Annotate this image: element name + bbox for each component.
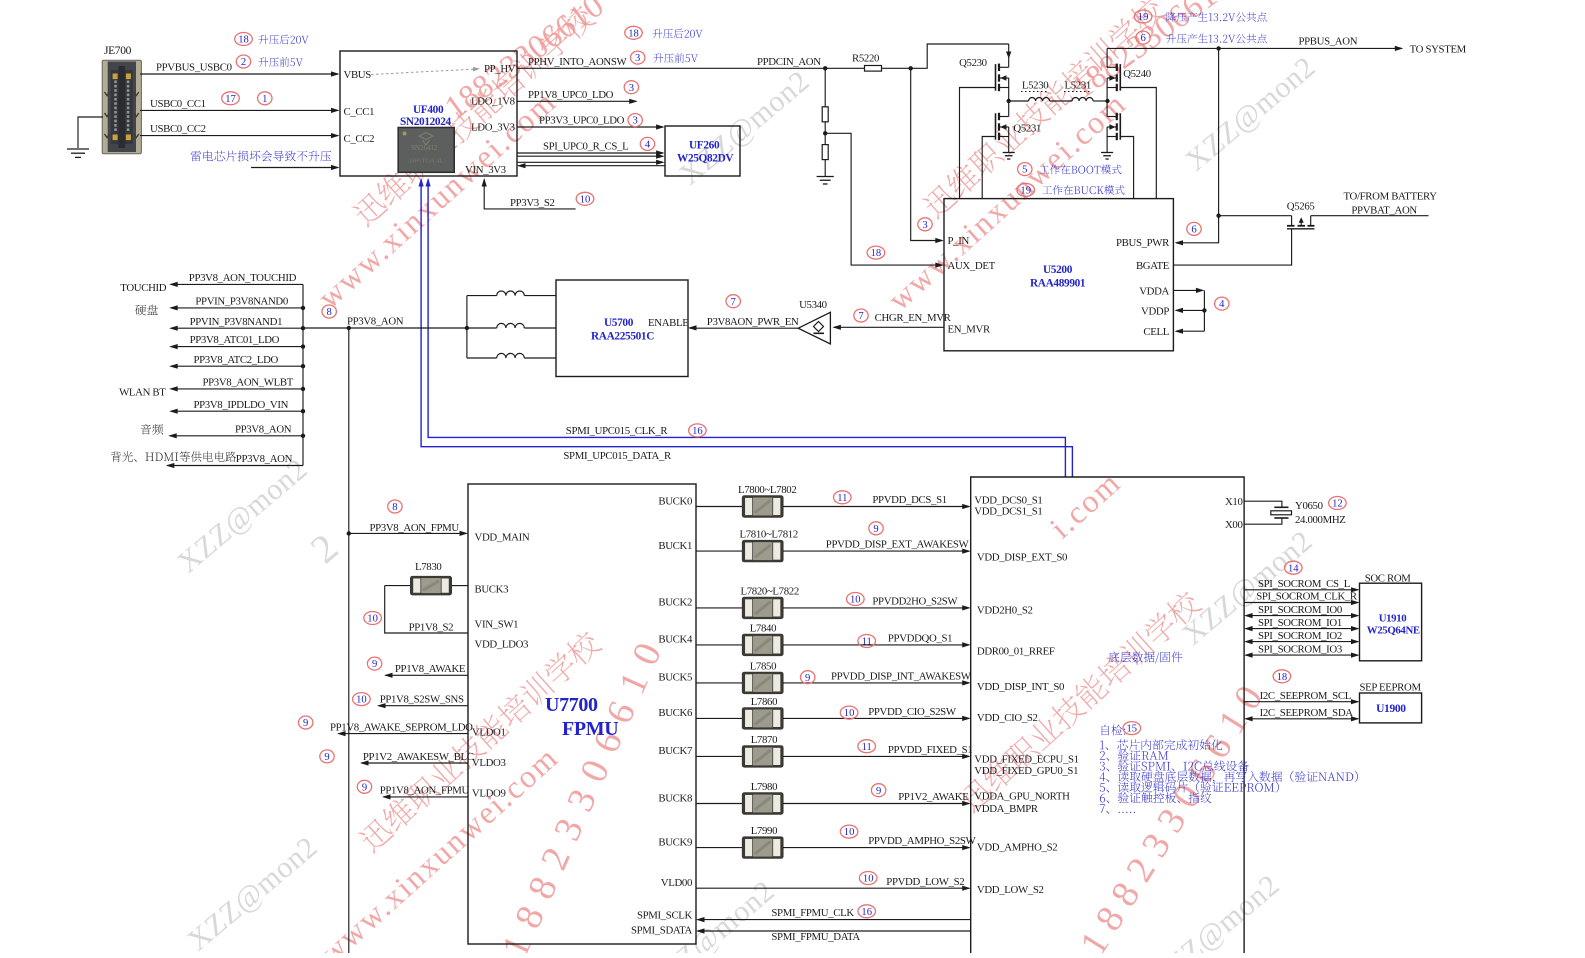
svg-text:SPMI_SDATA: SPMI_SDATA <box>631 924 693 936</box>
svg-text:9: 9 <box>873 524 878 535</box>
svg-text:I2C_SEEPROM_SCL: I2C_SEEPROM_SCL <box>1260 690 1351 702</box>
svg-text:BGATE: BGATE <box>1136 260 1170 272</box>
svg-text:SEP EEPROM: SEP EEPROM <box>1360 681 1422 693</box>
svg-text:PP_HV: PP_HV <box>484 63 516 75</box>
svg-text:W25Q64NE: W25Q64NE <box>1367 625 1420 637</box>
svg-text:LDO_3V3: LDO_3V3 <box>471 122 515 134</box>
svg-text:SPMI_FPMU_CLK: SPMI_FPMU_CLK <box>771 907 854 919</box>
svg-text:8: 8 <box>327 307 332 318</box>
svg-text:PPVDD2HO_S2SW: PPVDD2HO_S2SW <box>872 596 958 608</box>
transistor Q5265 (battery FET) <box>1219 201 1429 229</box>
wire P3V8AON_PWR_EN <box>688 316 799 331</box>
callout 11 (PPVDD_FIXED_S1) <box>858 740 876 753</box>
svg-text:VDD_FIXED_ECPU_S1: VDD_FIXED_ECPU_S1 <box>974 754 1078 766</box>
callout 4 (VDD loop) <box>1215 297 1229 310</box>
inductor L5230 <box>1009 79 1050 101</box>
svg-text:PP1V8_S2: PP1V8_S2 <box>409 622 454 634</box>
svg-text:3: 3 <box>633 116 638 127</box>
callout 15 + self-test annotation list <box>1100 722 1358 814</box>
wire PP3V8_ATC2_LDO branch ATC2 <box>169 354 305 369</box>
svg-text:VDD_LOW_S2: VDD_LOW_S2 <box>977 884 1044 896</box>
svg-text:PPVDDQO_S1: PPVDDQO_S1 <box>888 633 952 645</box>
svg-text:PP3V8_IPDLDO_VIN: PP3V8_IPDLDO_VIN <box>194 399 289 411</box>
wire PPHV_INTO_AONSW / PPDCIN_AON <box>517 56 864 71</box>
svg-text:PP3V8_AON: PP3V8_AON <box>235 423 292 435</box>
IC UF260 : SPI ROM W25Q82DV <box>665 126 740 176</box>
svg-text:SPMI_FPMU_DATA: SPMI_FPMU_DATA <box>771 931 860 943</box>
svg-text:TOUCHID: TOUCHID <box>120 282 166 294</box>
ground (JE700 shell) <box>67 117 103 157</box>
ferrite bead L7820~L7822 + wire PPVDD2HO_S2SW <box>696 585 971 619</box>
svg-text:VDDA_GPU_NORTH: VDDA_GPU_NORTH <box>974 791 1070 803</box>
svg-text:7: 7 <box>858 311 863 322</box>
callout 9 (PP1V2_AWAKE) <box>871 784 885 797</box>
svg-text:Y0650: Y0650 <box>1295 500 1323 512</box>
callout 10 (PPVDD2HO_S2SW) <box>847 593 865 606</box>
svg-text:W25Q82DV: W25Q82DV <box>677 153 734 165</box>
svg-text:VDD_LDO3: VDD_LDO3 <box>475 639 529 651</box>
wire PP3V8_ATC01_LDO branch ATC01 <box>169 334 305 349</box>
inductor (U5700 row2) <box>467 323 556 328</box>
callout 10 (PP3V3_S2) <box>576 192 594 205</box>
svg-text:7: 7 <box>731 297 736 308</box>
svg-text:UF400: UF400 <box>413 104 444 116</box>
wire SPI_SOCROM_IO3 <box>1244 643 1359 657</box>
callout 9 (PPVDD_DISP_INT_AWAKESW) <box>801 671 815 684</box>
svg-text:U1910: U1910 <box>1379 613 1407 625</box>
wire VDD_MAIN feed <box>347 531 468 536</box>
IC U7700 : FPMU <box>468 484 696 944</box>
wire PPVIN_P3V8NAND0 branch NAND0 <box>135 296 305 316</box>
svg-text:U5200: U5200 <box>1043 264 1073 276</box>
svg-text:Q5265: Q5265 <box>1287 201 1315 213</box>
svg-text:VDD_DISP_INT_S0: VDD_DISP_INT_S0 <box>977 681 1064 693</box>
wire PP3V3_UPC0_LDO <box>517 115 665 130</box>
svg-text:R5220: R5220 <box>852 53 879 65</box>
ground (right leg) <box>1101 152 1113 154</box>
wire SPMI_UPC015_CLK_R (blue bus) <box>426 178 1066 477</box>
IC U1900 : SEP EEPROM <box>1360 681 1422 723</box>
wire PPVIN_P3V8NAND1 branch NAND1 <box>169 316 305 331</box>
svg-text:SPMI_UPC015_DATA_R: SPMI_UPC015_DATA_R <box>563 450 672 462</box>
svg-text:PP3V8_ATC01_LDO: PP3V8_ATC01_LDO <box>190 334 280 346</box>
transistor Q5230 <box>959 44 1011 101</box>
transistor Q5231 <box>996 101 1042 152</box>
svg-text:PPVDD_DISP_INT_AWAKESW: PPVDD_DISP_INT_AWAKESW <box>831 671 972 683</box>
wire SPI bus UF400-UF260 (SPI_UPC0_R_CS_L) <box>517 141 665 169</box>
svg-text:AUX_DET: AUX_DET <box>948 260 996 272</box>
callout 10 (PPVDD_CIO_S2SW) <box>840 706 858 719</box>
svg-text:PP3V8_AON_TOUCHID: PP3V8_AON_TOUCHID <box>189 272 297 284</box>
ferrite bead L7840 + wire PPVDDQO_S1 <box>696 622 971 656</box>
svg-text:4: 4 <box>1219 299 1225 310</box>
wire PP3V3_S2 into VIN_3V3 <box>482 178 576 209</box>
svg-text:6: 6 <box>1140 33 1145 44</box>
wire PP3V8_AON trunk <box>303 326 467 330</box>
svg-text:4: 4 <box>645 140 651 151</box>
svg-text:SPI_SOCROM_IO1: SPI_SOCROM_IO1 <box>1258 617 1342 629</box>
svg-text:PP1V8_UPC0_LDO: PP1V8_UPC0_LDO <box>528 89 614 101</box>
annotation backlight/HDMI loads <box>111 451 236 461</box>
svg-text:SPI_UPC0_R_CS_L: SPI_UPC0_R_CS_L <box>543 141 628 153</box>
svg-text:18: 18 <box>238 35 249 46</box>
svg-text:SPI_SOCROM_CS_L: SPI_SOCROM_CS_L <box>1258 578 1350 590</box>
svg-text:PPVDD_AMPHO_S2SW: PPVDD_AMPHO_S2SW <box>868 835 976 847</box>
wire SPI_SOCROM_IO1 <box>1244 617 1359 631</box>
svg-text:8: 8 <box>392 502 397 513</box>
svg-text:VDD_DISP_EXT_S0: VDD_DISP_EXT_S0 <box>977 552 1067 564</box>
svg-text:SN26412: SN26412 <box>411 144 438 152</box>
svg-text:VIN_SW1: VIN_SW1 <box>475 619 519 631</box>
wire PPVDD_LOW_S2 <box>696 876 971 891</box>
callout 9 (PPVDD_DISP_EXT_AWAKESW) <box>869 522 883 535</box>
svg-text:PP3V8_ATC2_LDO: PP3V8_ATC2_LDO <box>194 354 279 366</box>
ground (divider) <box>817 176 834 178</box>
svg-text:C_CC1: C_CC1 <box>344 106 375 118</box>
IC U1910 : SOC ROM W25Q64NE <box>1360 573 1422 661</box>
svg-text:39P0TGA 4L: 39P0TGA 4L <box>408 158 443 165</box>
svg-text:CHGR_EN_MVR: CHGR_EN_MVR <box>875 312 952 324</box>
wire PP1V8_S2 to VIN_SW1 <box>385 586 468 634</box>
svg-text:11: 11 <box>862 637 872 648</box>
svg-text:U5340: U5340 <box>799 299 827 311</box>
svg-text:PP3V3_UPC0_LDO: PP3V3_UPC0_LDO <box>539 115 625 127</box>
net label PP3V8_AON + callout 8 <box>322 305 404 327</box>
node switch right <box>1105 99 1109 103</box>
connector JE700 <box>102 45 141 154</box>
wire SPI_SOCROM_IO2 <box>1244 630 1359 644</box>
svg-text:1: 1 <box>262 94 267 105</box>
svg-text:VLDO1: VLDO1 <box>472 727 506 739</box>
wire PPVBUS_USBC0 <box>140 62 340 77</box>
callout 17 <box>222 92 240 105</box>
svg-text:VDD_AMPHO_S2: VDD_AMPHO_S2 <box>977 842 1057 854</box>
svg-text:SPMI_UPC015_CLK_R: SPMI_UPC015_CLK_R <box>566 425 669 437</box>
svg-text:12: 12 <box>1332 499 1343 510</box>
svg-text:BUCK7: BUCK7 <box>658 745 693 757</box>
svg-text:PPHV_INTO_AONSW: PPHV_INTO_AONSW <box>528 56 627 68</box>
svg-text:9: 9 <box>372 659 377 670</box>
svg-text:BUCK1: BUCK1 <box>658 540 692 552</box>
UF400 chip photo <box>398 128 454 173</box>
svg-text:L7850: L7850 <box>750 660 776 672</box>
svg-text:BUCK0: BUCK0 <box>658 495 692 507</box>
svg-text:PBUS_PWR: PBUS_PWR <box>1116 237 1170 249</box>
wire USBC0_CC2 <box>140 123 340 138</box>
svg-text:9: 9 <box>362 782 367 793</box>
svg-text:18: 18 <box>1277 672 1288 683</box>
svg-text:PPVDD_DCS_S1: PPVDD_DCS_S1 <box>872 494 946 506</box>
callout 9 (PP1V8_AON_FPMU) <box>357 780 371 793</box>
svg-text:SPMI_SCLK: SPMI_SCLK <box>637 909 693 921</box>
resistor divider lower <box>822 122 828 176</box>
svg-text:BUCK2: BUCK2 <box>658 597 692 609</box>
wire PP3V8 vertical bus <box>302 284 304 465</box>
svg-text:PPVDD_LOW_S2: PPVDD_LOW_S2 <box>886 876 964 888</box>
svg-text:C_CC2: C_CC2 <box>344 133 375 145</box>
svg-text:PPVBUS_USBC0: PPVBUS_USBC0 <box>156 62 232 74</box>
svg-text:Q5231: Q5231 <box>1013 123 1041 135</box>
svg-text:2: 2 <box>241 57 246 68</box>
svg-text:VIN_3V3: VIN_3V3 <box>465 164 506 176</box>
wire PP1V8_AWAKE_SEPROM_LDO <box>330 721 473 736</box>
callout 9 (PP1V8_AWAKE_SEPROM_LDO) <box>299 716 313 729</box>
ferrite bead L7990 + wire PPVDD_AMPHO_S2SW <box>696 825 977 859</box>
wire SPMI_FPMU_CLK <box>696 907 971 922</box>
svg-text:USBC0_CC1: USBC0_CC1 <box>150 98 206 110</box>
svg-text:17: 17 <box>225 94 236 105</box>
callout 3 (PP3V3) <box>628 114 642 127</box>
svg-text:BUCK6: BUCK6 <box>658 707 693 719</box>
callout 7 (CHGR_EN_MVR) <box>854 309 868 322</box>
wire PP3V8_AON_FPMU vertical <box>348 328 350 953</box>
wire PP3V8_AON branch BACKLIGHT <box>166 453 303 468</box>
wire I2C_SEEPROM_SDA <box>1244 707 1359 721</box>
svg-text:TO SYSTEM: TO SYSTEM <box>1410 44 1467 56</box>
wire coil bus <box>465 296 469 358</box>
IC UF400 : USB-C PD controller SN2012024 <box>340 51 517 176</box>
svg-text:14: 14 <box>1288 563 1299 574</box>
svg-text:CELL: CELL <box>1143 326 1169 338</box>
svg-text:10: 10 <box>844 708 855 719</box>
inductor L5231 <box>1050 79 1108 101</box>
svg-text:10: 10 <box>863 874 874 885</box>
wire CHGR_EN_MVR <box>832 312 951 330</box>
svg-text:U7700: U7700 <box>545 694 598 716</box>
svg-text:VLDO3: VLDO3 <box>472 757 506 769</box>
svg-text:PP3V3_S2: PP3V3_S2 <box>510 197 555 209</box>
inductor (U5700 row1) <box>467 291 556 296</box>
svg-text:19: 19 <box>1020 186 1031 197</box>
svg-text:JE700: JE700 <box>104 45 132 57</box>
callout 3 : pre-boost 5V annotation (top) <box>631 51 698 64</box>
svg-text:U1900: U1900 <box>1376 703 1406 715</box>
svg-text:L7840: L7840 <box>750 622 776 634</box>
svg-text:VDD_CIO_S2: VDD_CIO_S2 <box>977 712 1038 724</box>
transistor Q5240 low side <box>1107 101 1120 152</box>
svg-text:PPVIN_P3V8NAND1: PPVIN_P3V8NAND1 <box>190 316 283 328</box>
svg-text:VLD00: VLD00 <box>661 877 692 889</box>
wire PPBUS to PBUS_PWR <box>1175 48 1221 245</box>
svg-text:9: 9 <box>805 673 810 684</box>
callout 19 : step-down 13.2V note <box>1134 10 1266 23</box>
SOC power-in block <box>971 477 1244 953</box>
wire SPI_SOCROM_CLK_R <box>1244 591 1359 605</box>
IC U5200 : charger RAA489901 <box>944 199 1173 351</box>
svg-text:SPI_SOCROM_CLK_R: SPI_SOCROM_CLK_R <box>1256 591 1358 603</box>
wire SPI_SOCROM_IO0 <box>1244 604 1359 618</box>
callout 11 (PPVDDQO_S1) <box>858 635 876 648</box>
callout 5 : works in BOOT mode <box>1018 163 1122 176</box>
wire PP1V8_AWAKE <box>384 663 468 678</box>
svg-text:9: 9 <box>324 752 329 763</box>
svg-text:PPVBAT_AON: PPVBAT_AON <box>1351 205 1417 217</box>
wire Q5240 low gate <box>1120 137 1133 199</box>
svg-text:9: 9 <box>303 718 308 729</box>
svg-text:FPMU: FPMU <box>562 718 618 740</box>
wire PP1V2_AWAKESW_BLC <box>360 751 474 766</box>
inductor (U5700 row3) <box>467 353 556 358</box>
svg-text:3: 3 <box>635 53 640 64</box>
svg-text:PP3V8_AON_FPMU: PP3V8_AON_FPMU <box>370 522 460 534</box>
wire I2C_SEEPROM_SCL <box>1244 690 1359 704</box>
transistor Q5240 (high side) <box>1107 48 1151 101</box>
ferrite bead L7870 + wire PPVDD_FIXED_S1 <box>696 734 972 768</box>
svg-text:L7870: L7870 <box>751 734 777 746</box>
callout 6 (PBUS_PWR) <box>1187 222 1201 235</box>
svg-text:Q5230: Q5230 <box>959 57 987 69</box>
svg-text:SPI_SOCROM_IO0: SPI_SOCROM_IO0 <box>1258 604 1342 616</box>
svg-text:5: 5 <box>1022 165 1027 176</box>
ferrite bead L7800~L7802 + wire PPVDD_DCS_S1 <box>696 484 971 518</box>
callout 8 (FPMU) + net label PP3V8_AON_FPMU <box>370 500 460 534</box>
crystal Y0650 <box>1244 500 1345 526</box>
svg-text:PP1V8_AON_FPMU: PP1V8_AON_FPMU <box>380 785 470 797</box>
svg-text:P_IN: P_IN <box>948 235 970 247</box>
wire PPDCIN to Q5230 drain <box>882 44 1009 71</box>
svg-text:RAA225501C: RAA225501C <box>591 330 654 342</box>
svg-text:10: 10 <box>356 695 367 706</box>
svg-text:24.000MHZ: 24.000MHZ <box>1295 514 1346 526</box>
svg-text:BUCK5: BUCK5 <box>658 672 692 684</box>
svg-text:L7990: L7990 <box>751 825 777 837</box>
callout 10 (PP1V8_S2SW_SNS) <box>353 693 371 706</box>
svg-text:SN2012024: SN2012024 <box>400 116 452 128</box>
svg-text:U5700: U5700 <box>604 317 634 329</box>
svg-text:10: 10 <box>850 595 861 606</box>
wire PP3V8_IPDLDO_VIN branch IPDLDO <box>169 399 305 414</box>
svg-text:TO/FROM BATTERY: TO/FROM BATTERY <box>1344 191 1438 203</box>
wire SPMI_UPC015_DATA_R (blue bus) <box>419 178 1073 477</box>
callout 16 (SPMI) <box>689 424 707 437</box>
svg-text:PPVDD_FIXED_S1: PPVDD_FIXED_S1 <box>888 744 973 756</box>
svg-text:Q5240: Q5240 <box>1123 68 1151 80</box>
svg-text:SPI_SOCROM_IO2: SPI_SOCROM_IO2 <box>1258 630 1342 642</box>
ferrite bead L7810~L7812 + wire PPVDD_DISP_EXT_AWAKESW <box>696 529 971 563</box>
svg-text:VDD_DCS1_S1: VDD_DCS1_S1 <box>974 506 1042 518</box>
wire SPI_SOCROM_CS_L <box>1244 578 1359 592</box>
callout 2 : pre-boost 5V annotation <box>236 55 303 68</box>
svg-text:VDDA: VDDA <box>1139 285 1169 297</box>
svg-text:PPDCIN_AON: PPDCIN_AON <box>757 56 821 68</box>
ferrite bead L7860 + wire PPVDD_CIO_S2SW <box>696 696 971 730</box>
svg-text:BUCK3: BUCK3 <box>475 584 509 596</box>
wire PPBUS_AON <box>1107 36 1467 56</box>
callout 18 : boost 20V annotation <box>235 33 309 46</box>
svg-text:L7800~L7802: L7800~L7802 <box>738 484 796 496</box>
svg-text:PP1V2_AWAKE: PP1V2_AWAKE <box>898 791 969 803</box>
svg-text:L7820~L7822: L7820~L7822 <box>741 585 799 597</box>
wire PP3V8_AON_TOUCHID branch TOUCHID <box>120 272 303 294</box>
svg-text:PP3V8_AON_WLBT: PP3V8_AON_WLBT <box>203 377 294 389</box>
svg-text:EN_MVR: EN_MVR <box>948 323 991 335</box>
wire PP3V8_AON_WLBT branch WLBT <box>119 377 305 399</box>
svg-text:DDR00_01_RREF: DDR00_01_RREF <box>977 646 1055 658</box>
svg-text:RAA489901: RAA489901 <box>1030 278 1086 290</box>
callout 12 (crystal) <box>1329 497 1347 510</box>
callout 3 (PP1V8) <box>624 81 638 94</box>
wire PP3V8_AON branch AUDIO <box>141 423 306 438</box>
svg-text:L7830: L7830 <box>415 561 441 573</box>
svg-text:VDDA_BMPR: VDDA_BMPR <box>974 803 1039 815</box>
callout 10 (PPVDD_AMPHO_S2SW) <box>840 825 858 838</box>
svg-text:11: 11 <box>862 742 872 753</box>
svg-text:10: 10 <box>367 614 378 625</box>
callout 18 (AUX_DET) <box>867 246 885 259</box>
wire Q5231 gate <box>982 137 995 199</box>
wire Q5230 gate <box>960 88 996 199</box>
callout 9 (PP1V8_AWAKE) <box>367 657 381 670</box>
svg-text:BUCK8: BUCK8 <box>658 792 692 804</box>
svg-text:WLAN BT: WLAN BT <box>119 387 166 399</box>
svg-text:PP3V8_AON: PP3V8_AON <box>347 315 404 327</box>
wire VDDA-VDDP-CELL <box>1173 288 1206 334</box>
callout 18 : boost 20V annotation (top) <box>625 26 703 39</box>
resistor R5220 <box>852 53 882 72</box>
svg-text:USBC0_CC2: USBC0_CC2 <box>150 123 206 135</box>
callout 10 (PPVDD_LOW_S2) <box>859 872 877 885</box>
svg-text:VDD2H0_S2: VDD2H0_S2 <box>977 605 1033 617</box>
svg-text:18: 18 <box>871 248 882 259</box>
IC U5700 : RAA225501C <box>556 280 689 377</box>
svg-text:VLDO9: VLDO9 <box>472 788 506 800</box>
wire PP1V8_UPC0_LDO <box>517 89 638 104</box>
svg-text:10: 10 <box>580 194 591 205</box>
svg-text:16: 16 <box>861 907 872 918</box>
svg-text:16: 16 <box>692 426 703 437</box>
resistor divider upper <box>822 68 828 122</box>
annotation 底层数据/固件 <box>1109 651 1183 663</box>
svg-text:UF260: UF260 <box>689 140 720 152</box>
svg-text:LDO_1V8: LDO_1V8 <box>471 96 515 108</box>
svg-text:BUCK9: BUCK9 <box>658 836 692 848</box>
wire SPMI_FPMU_DATA <box>696 928 971 943</box>
callout 19 : works in BUCK mode <box>1017 183 1125 196</box>
ground (Q5231 source) <box>1003 152 1015 154</box>
callout 7 (P3V8AON_PWR_EN) <box>726 295 740 308</box>
callout 9 (PP1V2_AWAKESW_BLC) <box>320 750 334 763</box>
svg-text:19: 19 <box>1138 12 1149 23</box>
svg-text:X00: X00 <box>1225 519 1243 531</box>
svg-text:L5231: L5231 <box>1065 79 1091 91</box>
net PPVBAT_AON / battery labels <box>1344 191 1438 217</box>
svg-text:PPVDD_DISP_EXT_AWAKESW: PPVDD_DISP_EXT_AWAKESW <box>826 539 970 551</box>
wire PP1V8_S2SW_SNS <box>377 694 468 709</box>
wire Q5240 gate <box>1120 88 1156 199</box>
svg-text:PP3V8_AON: PP3V8_AON <box>236 453 293 465</box>
annotation: thunderbolt chip damage note + wire <box>191 151 340 170</box>
wire PP1V8_AON_FPMU <box>380 785 470 800</box>
svg-text:L7860: L7860 <box>751 696 777 708</box>
node switch left <box>1007 99 1011 103</box>
svg-text:VDD_MAIN: VDD_MAIN <box>475 532 530 544</box>
svg-text:6: 6 <box>1191 225 1196 236</box>
callout 16 (SPMI_FPMU) <box>858 905 876 918</box>
ferrite bead L7980 + wire PP1V2_AWAKE <box>696 781 971 815</box>
callout 11 (PPVDD_DCS_S1) <box>834 491 852 504</box>
svg-text:15: 15 <box>1127 724 1138 735</box>
wire USBC0_CC1 <box>140 98 340 113</box>
svg-text:BUCK4: BUCK4 <box>658 634 693 646</box>
callout 10 (PP1V8_S2) <box>364 612 382 625</box>
ferrite bead L7830 <box>385 561 468 595</box>
svg-text:PP1V8_AWAKE_SEPROM_LDO: PP1V8_AWAKE_SEPROM_LDO <box>330 721 473 733</box>
svg-text:18: 18 <box>628 28 639 39</box>
callout 3 (P_IN) <box>918 218 932 231</box>
callout 18 (I2C_SEEPROM) <box>1273 670 1291 683</box>
svg-text:PP1V8_AWAKE: PP1V8_AWAKE <box>395 663 466 675</box>
svg-text:L7810~L7812: L7810~L7812 <box>740 529 798 541</box>
